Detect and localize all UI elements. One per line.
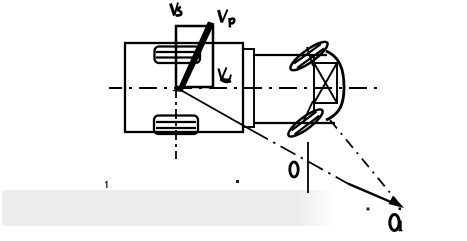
- scan shadow band bottom-left: [2, 190, 302, 226]
- ray A dash-dot from lens bottom to focus: [330, 120, 396, 200]
- speckle dot: [236, 180, 239, 183]
- end-cap step rect: [243, 49, 254, 127]
- optical axis (horizontal dash-dot center line): [109, 87, 377, 89]
- ray A terminal dot: [399, 208, 402, 211]
- arrowhead: [389, 196, 405, 209]
- tube top edge: [254, 54, 327, 56]
- top hatched bar: [155, 47, 201, 64]
- junction blob at prism corner: [172, 84, 184, 92]
- speckle dot 2: [367, 208, 370, 211]
- tube bottom edge: [254, 122, 335, 124]
- main housing box: [125, 43, 243, 132]
- label Vk: [219, 68, 232, 81]
- ray B dash-dot to focus: [253, 131, 348, 184]
- top tilted hatched ellipse: [287, 38, 331, 74]
- label Q1: [390, 215, 403, 231]
- vertical line at O: [307, 142, 309, 193]
- ray B solid inside box: [177, 88, 253, 131]
- connector strokes near lens: [307, 47, 313, 66]
- bottom hatched bar: [154, 116, 198, 135]
- lens curved surface: [326, 51, 344, 120]
- ray B solid arrow segment: [348, 184, 399, 206]
- small mark 1: [105, 182, 107, 188]
- prism square: [176, 26, 213, 87]
- thick diagonal in prism: [179, 22, 215, 90]
- label Vp: [219, 10, 235, 28]
- vertical center line through bars: [175, 88, 177, 159]
- bottom tilted hatched ellipse: [285, 106, 326, 141]
- lens X-rect: [314, 56, 337, 111]
- label Vs: [171, 3, 182, 16]
- label O: [290, 162, 298, 177]
